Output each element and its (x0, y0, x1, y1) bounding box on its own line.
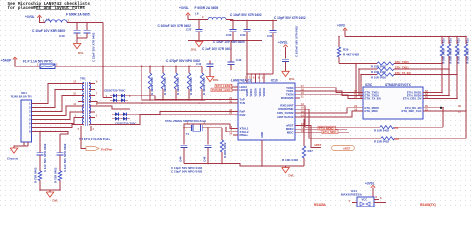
svg-text:VDDIO: VDDIO (250, 89, 253, 97)
capacitor C43 (282, 26, 299, 72)
svg-text:R 4K7 0402: R 4K7 0402 (343, 53, 359, 57)
svg-text:C46: C46 (203, 156, 207, 162)
svg-text:C42: C42 (236, 58, 242, 62)
wire (40, 189, 60, 191)
wire (183, 128, 185, 145)
svg-text:C 1nF 50V NPO 0402: C 1nF 50V NPO 0402 (43, 143, 47, 172)
junction (232, 20, 234, 22)
svg-text:VDD1A: VDD1A (259, 88, 262, 97)
resistor R31 49R9 (161, 66, 167, 100)
wire TR1 to PHY TxP (103, 97, 112, 99)
svg-text:VCC: VCC (362, 198, 368, 202)
wire (442, 108, 444, 127)
svg-text:RXD0/M0: RXD0/M0 (281, 96, 294, 100)
svg-text:TR1: TR1 (80, 77, 86, 81)
ground DVL (191, 42, 203, 52)
svg-text:C 10uF 10V X5R 0805: C 10uF 10V X5R 0805 (213, 40, 245, 44)
svg-text:ETH_TXD0: ETH_TXD0 (395, 60, 409, 64)
svg-text:ETH_REF_CLK: ETH_REF_CLK (401, 109, 421, 113)
svg-text:R 75R 0402: R 75R 0402 (53, 167, 57, 183)
svg-text:C 10pF 50V X7R 0402: C 10pF 50V X7R 0402 (274, 16, 306, 20)
resistor R34 49R9 (200, 66, 206, 100)
wire PHY nINT RefClk to MCU MDC (300, 111, 358, 117)
svg-text:ETH_TX_EN: ETH_TX_EN (395, 71, 411, 75)
wire (102, 23, 104, 98)
wire (15, 62, 40, 66)
svg-text:C 1nF 50V NPO 0402: C 1nF 50V NPO 0402 (63, 143, 67, 172)
ground DVL (282, 166, 295, 178)
wire MCU CRS_DV (428, 97, 457, 99)
svg-text:R 49R9 0402: R 49R9 0402 (163, 77, 167, 95)
svg-text:C31: C31 (267, 34, 273, 38)
wire MCU RXD0 (428, 94, 449, 96)
svg-text:ETH_LED2: ETH_LED2 (216, 84, 231, 88)
power port +3V3 (337, 23, 347, 34)
resistor R46 50R pullup (455, 37, 460, 99)
svg-text:C40: C40 (59, 34, 65, 38)
svg-text:DVL: DVL (289, 77, 295, 81)
wire (77, 37, 87, 39)
wire (14, 146, 28, 148)
junction (149, 99, 151, 101)
net label PHYAD0_LED1 (211, 88, 233, 92)
svg-text:R 75R 0402: R 75R 0402 (33, 167, 37, 183)
junction (441, 63, 443, 65)
capacitor C44 (179, 145, 188, 163)
svg-text:ETH_CRS_DV: ETH_CRS_DV (403, 96, 422, 100)
resistor R203 33R (309, 137, 466, 144)
svg-text:PoEPwr: PoEPwr (101, 148, 113, 152)
op-amp: MCU IC5C STM32F407VGTX (354, 83, 428, 119)
junction (102, 66, 104, 68)
svg-text:F 600R 2A 0805: F 600R 2A 0805 (66, 13, 90, 17)
wire (250, 74, 252, 83)
ground DVL (282, 71, 295, 81)
svg-text:C 10uF 50V X7R 0402: C 10uF 50V X7R 0402 (230, 13, 262, 17)
wire +3V3 rail (344, 34, 346, 37)
op-amp: PHY IC10 LAN8742A-CZ (229, 79, 304, 141)
svg-text:DVL: DVL (289, 174, 295, 178)
note text (8, 2, 91, 11)
svg-text:C 22uF 35V X7R 0402: C 22uF 35V X7R 0402 (92, 32, 96, 62)
svg-text:+3V3: +3V3 (337, 23, 345, 27)
port PoEPwr (81, 131, 113, 152)
junction (207, 163, 209, 165)
svg-text:C44: C44 (179, 156, 183, 162)
svg-text:RS485(TX): RS485(TX) (420, 203, 436, 207)
svg-text:DVL: DVL (53, 199, 59, 203)
resistor R42 10R (359, 66, 449, 75)
svg-text:+3VSL: +3VSL (278, 41, 288, 45)
svg-text:C36: C36 (226, 33, 232, 37)
wire riser TXD0 (355, 64, 357, 93)
resistor R40 (220, 128, 227, 164)
svg-text:C41: C41 (196, 62, 202, 66)
capacitor C37 (158, 20, 203, 41)
wire (188, 40, 262, 42)
svg-text:R 33R 0402: R 33R 0402 (374, 140, 389, 144)
svg-text:ETH_MDC: ETH_MDC (323, 130, 337, 134)
capacitor C38 (84, 23, 96, 63)
power port +3VSL (365, 181, 375, 197)
wire XTAL2 (202, 127, 222, 129)
capacitor C42 (228, 41, 242, 71)
capacitor C41 (166, 59, 214, 77)
port nRST (300, 125, 354, 150)
svg-text:DVL: DVL (191, 48, 197, 52)
transformer TR1 (73, 77, 98, 132)
svg-text:RBias: RBias (240, 133, 249, 137)
wire (141, 66, 143, 100)
junction (246, 73, 248, 75)
power port +3V3L (179, 6, 190, 19)
diode array CDSOT23-T05C D4 (104, 89, 131, 103)
power port +3V3SL (278, 41, 288, 59)
svg-text:R 50R 0402: R 50R 0402 (449, 49, 453, 64)
svg-text:Y1: Y1 (186, 132, 190, 136)
svg-text:ETH_MDC: ETH_MDC (365, 109, 379, 113)
svg-text:VDDIO: VDDIO (246, 89, 249, 97)
wire PHY TXEN to MCU (300, 95, 363, 99)
ferrite bead L6 (188, 6, 233, 20)
svg-text:F 600R 2A 0805: F 600R 2A 0805 (195, 6, 219, 10)
capacitor C30 (240, 20, 251, 40)
svg-text:C 10pF 50V NPO 0402: C 10pF 50V NPO 0402 (171, 170, 202, 174)
svg-text:IC5C: IC5C (365, 83, 373, 87)
ground DVL (206, 77, 219, 83)
power port +3V3L (25, 15, 42, 21)
svg-text:R37: R37 (308, 149, 314, 153)
wire MCU REF_CLK (428, 110, 466, 112)
wire (246, 41, 248, 84)
svg-text:C 1uF 16V X7R 0402: C 1uF 16V X7R 0402 (202, 47, 232, 51)
junction (198, 40, 200, 42)
svg-text:R 50R 0402: R 50R 0402 (442, 49, 446, 64)
resistor R204 10R (305, 126, 443, 133)
svg-text:C 100nF 16V X7R 0402: C 100nF 16V X7R 0402 (295, 26, 299, 57)
resistor R29 4K7 (337, 36, 359, 64)
svg-text:nINT RefClk: nINT RefClk (277, 115, 294, 119)
wire riser TXEN (360, 75, 362, 99)
svg-text:R 10R 0402: R 10R 0402 (371, 76, 386, 80)
wire MCU RXD1 (428, 92, 442, 94)
wire TR1 to PHY RxP (130, 112, 233, 115)
capacitor C40 (32, 23, 81, 39)
svg-text:RJ45 8A 8A TH: RJ45 8A 8A TH (11, 94, 31, 98)
wire PHY TXD1 to MCU (300, 91, 363, 95)
resistor R30 49R9 (148, 66, 154, 100)
wire RJ45 to TR1 (35, 84, 78, 153)
ground DVL (73, 38, 84, 55)
resistor R47 50R pullup (464, 37, 469, 111)
svg-text:+3V3L: +3V3L (25, 15, 35, 19)
svg-text:R 10K 0402: R 10K 0402 (282, 158, 298, 162)
capacitor C46 (203, 128, 212, 164)
ground DVL (46, 192, 58, 203)
wire PHY GND (261, 140, 263, 166)
svg-text:DVL: DVL (78, 51, 84, 55)
svg-text:R 49R9 0402: R 49R9 0402 (202, 77, 206, 95)
svg-text:DVL: DVL (213, 78, 219, 82)
capacitor C31 (267, 20, 277, 43)
svg-text:203: 203 (395, 137, 400, 141)
svg-text:RS485A: RS485A (314, 203, 327, 207)
net label ETH_MDC (300, 130, 349, 134)
svg-text:nRST: nRST (343, 146, 351, 150)
svg-text:R 0R0 0402: R 0R0 0402 (223, 142, 227, 158)
net label ETH_MDIO (300, 126, 347, 130)
wire (67, 22, 103, 24)
wire PHY RXER (300, 109, 309, 138)
pin numbers (245, 77, 265, 80)
capacitor C36 (226, 20, 237, 40)
svg-text:ETH_TX_EN: ETH_TX_EN (365, 96, 381, 100)
resistor R33 49R9 (187, 66, 193, 100)
net label ETH_LED2 (215, 84, 233, 88)
svg-text:C30: C30 (240, 33, 246, 37)
svg-text:204: 204 (394, 126, 399, 130)
svg-text:LAN8742A-CZ: LAN8742A-CZ (231, 79, 252, 83)
junction (178, 99, 180, 101)
wire (232, 19, 234, 22)
svg-text:ETH_TXD1: ETH_TXD1 (395, 66, 409, 70)
diode array CDSOT23-T05C D5 (112, 112, 137, 125)
termination RC network left (33, 143, 46, 190)
op-amp: transceiver IC11 MAX3079EESA (341, 189, 386, 207)
junction (441, 36, 443, 38)
svg-text:XTAL 25MHz 50PPM 5X3.2mm: XTAL 25MHz 50PPM 5X3.2mm (165, 119, 207, 123)
svg-text:Chassis: Chassis (7, 157, 19, 161)
wire (247, 73, 273, 75)
svg-text:PHYAD0_LED1: PHYAD0_LED1 (212, 88, 231, 92)
ground Chassis (7, 148, 19, 161)
svg-text:R 49R9 0402: R 49R9 0402 (150, 77, 154, 95)
connector SK1 RJ45 (11, 91, 35, 146)
resistor R41 10R (339, 60, 442, 69)
svg-text:GND: GND (260, 132, 264, 138)
resistor R43 10R (361, 71, 457, 80)
svg-text:RxN: RxN (240, 113, 246, 117)
ferrite bead L8 (43, 13, 90, 23)
svg-text:nRST: nRST (314, 143, 322, 147)
wire (55, 65, 202, 67)
wire (40, 21, 46, 23)
svg-text:TxN: TxN (240, 101, 246, 105)
svg-text:VDD2A: VDD2A (255, 88, 258, 97)
resistor R32 49R9 (174, 66, 180, 100)
svg-text:R 49R9 0402: R 49R9 0402 (176, 77, 180, 95)
wire PHY CRS_DV to MCU MDIO (300, 108, 358, 113)
svg-text:TR ETH 2 CHAN PoE+: TR ETH 2 CHAN PoE+ (79, 137, 111, 141)
power port +5AUP (1, 57, 17, 62)
svg-text:C 10uF 10V X5R 0805: C 10uF 10V X5R 0805 (32, 29, 65, 33)
svg-text:C37: C37 (186, 27, 192, 31)
svg-text:+3V3L: +3V3L (179, 6, 189, 10)
svg-text:L6: L6 (195, 12, 199, 16)
junction (76, 22, 78, 24)
svg-text:R 10R 0402: R 10R 0402 (374, 128, 389, 132)
resistor R44 50R pullup (440, 37, 445, 93)
wire (184, 164, 286, 167)
svg-text:STM32F407VGTX: STM32F407VGTX (385, 83, 412, 87)
svg-text:CDSOT23-T05C: CDSOT23-T05C (104, 89, 126, 93)
wire TR1 to PHY TxN (95, 102, 233, 104)
wire PHY TXD0 to MCU (300, 88, 363, 93)
svg-text:MDC: MDC (287, 131, 295, 135)
crystal Y1 circuit (165, 119, 207, 136)
junction (39, 189, 41, 191)
wire (465, 111, 467, 138)
svg-text:MAX3079EESA: MAX3079EESA (341, 193, 363, 197)
svg-text:R 50R 0402: R 50R 0402 (457, 49, 461, 64)
wire PHY RXD1 (300, 106, 305, 128)
wire riser TXD1 (358, 69, 360, 95)
resistor R37 (282, 119, 313, 166)
svg-text:R 50R 0402: R 50R 0402 (466, 49, 470, 64)
fuse F1 (23, 60, 58, 69)
wire (142, 99, 205, 101)
wire XTAL1 (184, 124, 233, 129)
termination RC network right (53, 143, 66, 190)
svg-text:IC10: IC10 (271, 79, 278, 83)
svg-text:VDDCR: VDDCR (263, 88, 266, 97)
wire TR1 to PHY RxN (95, 115, 233, 125)
wire (95, 106, 130, 109)
resistor R45 50R pullup (447, 37, 452, 96)
svg-text:L8: L8 (46, 18, 50, 22)
svg-text:+5AUP: +5AUP (1, 59, 11, 63)
svg-text:+3VSL: +3VSL (365, 181, 375, 185)
svg-text:R29: R29 (343, 48, 349, 52)
svg-text:R 49R9 0402: R 49R9 0402 (189, 77, 193, 95)
